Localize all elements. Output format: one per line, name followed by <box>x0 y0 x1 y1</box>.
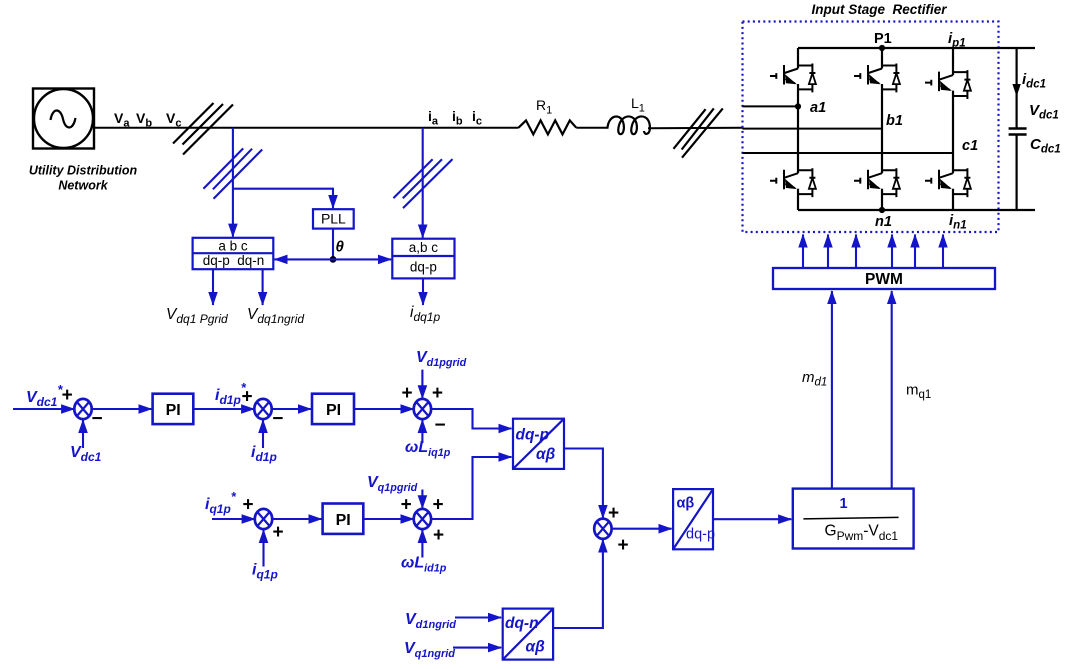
svg-text:PI: PI <box>166 402 181 419</box>
svg-text:ia: ia <box>428 108 439 128</box>
svg-text:a1: a1 <box>810 100 826 116</box>
svg-text:dq-n: dq-n <box>505 615 539 632</box>
svg-text:Vdq1ngrid: Vdq1ngrid <box>247 306 304 326</box>
svg-text:+: + <box>242 495 253 516</box>
svg-text:+: + <box>242 386 253 407</box>
svg-text:PLL: PLL <box>321 211 346 227</box>
svg-text:+: + <box>272 522 283 543</box>
svg-text:Input Stage Rectifier: Input Stage Rectifier <box>811 2 947 17</box>
svg-text:αβ: αβ <box>526 639 546 656</box>
svg-text:αβ: αβ <box>677 496 695 512</box>
svg-text:a,b c: a,b c <box>409 240 439 255</box>
svg-text:Vdc1: Vdc1 <box>1029 102 1059 122</box>
svg-text:dq-p: dq-p <box>516 427 550 444</box>
svg-text:+: + <box>433 525 444 546</box>
svg-text:idc1: idc1 <box>1022 71 1046 91</box>
svg-text:md1: md1 <box>802 369 827 389</box>
svg-text:+: + <box>432 383 443 404</box>
svg-text:+: + <box>617 535 628 556</box>
svg-text:idq1p: idq1p <box>410 304 440 324</box>
svg-text:−: − <box>434 415 445 436</box>
svg-text:PI: PI <box>336 512 351 529</box>
svg-text:Vdc1: Vdc1 <box>70 444 102 464</box>
svg-text:Vdq1 Pgrid: Vdq1 Pgrid <box>166 306 228 326</box>
svg-text:Vq1ngrid: Vq1ngrid <box>404 640 455 660</box>
svg-text:mq1: mq1 <box>906 382 931 402</box>
svg-text:n1: n1 <box>875 214 892 230</box>
svg-text:a b c: a b c <box>218 239 248 254</box>
svg-text:Vc: Vc <box>166 110 181 130</box>
svg-text:iq1p*: iq1p* <box>205 489 237 516</box>
svg-text:dq-p: dq-p <box>686 527 715 543</box>
svg-text:R1: R1 <box>536 97 552 117</box>
svg-text:θ: θ <box>336 239 345 256</box>
svg-text:−: − <box>272 409 283 430</box>
svg-text:iq1p: iq1p <box>252 562 278 582</box>
svg-text:Vd1ngrid: Vd1ngrid <box>405 611 456 631</box>
svg-text:c1: c1 <box>962 138 978 154</box>
svg-text:PWM: PWM <box>865 271 903 288</box>
svg-text:L1: L1 <box>631 95 645 115</box>
svg-text:ib: ib <box>452 108 463 128</box>
svg-text:b1: b1 <box>886 113 903 129</box>
svg-text:ωLiq1p: ωLiq1p <box>405 439 451 459</box>
svg-text:Cdc1: Cdc1 <box>1030 136 1061 156</box>
svg-text:+: + <box>62 385 73 406</box>
svg-text:1: 1 <box>839 496 847 512</box>
svg-text:Vb: Vb <box>136 110 152 130</box>
svg-text:ip1: ip1 <box>948 30 966 50</box>
svg-text:−: − <box>91 409 102 430</box>
svg-text:ic: ic <box>472 108 482 128</box>
svg-text:ωLid1p: ωLid1p <box>401 555 447 575</box>
svg-text:dq-p: dq-p <box>410 260 437 275</box>
svg-text:+: + <box>432 495 443 516</box>
svg-text:Va: Va <box>114 110 130 130</box>
svg-text:Vd1pgrid: Vd1pgrid <box>416 349 467 369</box>
svg-text:Vdc1*: Vdc1* <box>26 382 63 409</box>
svg-text:+: + <box>401 495 412 516</box>
svg-text:+: + <box>401 383 412 404</box>
svg-text:GPwm-Vdc1: GPwm-Vdc1 <box>825 523 899 544</box>
svg-text:αβ: αβ <box>536 446 556 463</box>
svg-text:Vq1pgrid: Vq1pgrid <box>367 474 418 494</box>
svg-text:PI: PI <box>326 402 341 419</box>
svg-text:dq-p dq-n: dq-p dq-n <box>203 253 265 268</box>
svg-text:+: + <box>608 503 619 524</box>
svg-text:in1: in1 <box>949 212 967 232</box>
svg-text:Network: Network <box>58 179 108 193</box>
svg-text:P1: P1 <box>874 31 892 47</box>
svg-text:Utility Distribution: Utility Distribution <box>29 164 138 178</box>
